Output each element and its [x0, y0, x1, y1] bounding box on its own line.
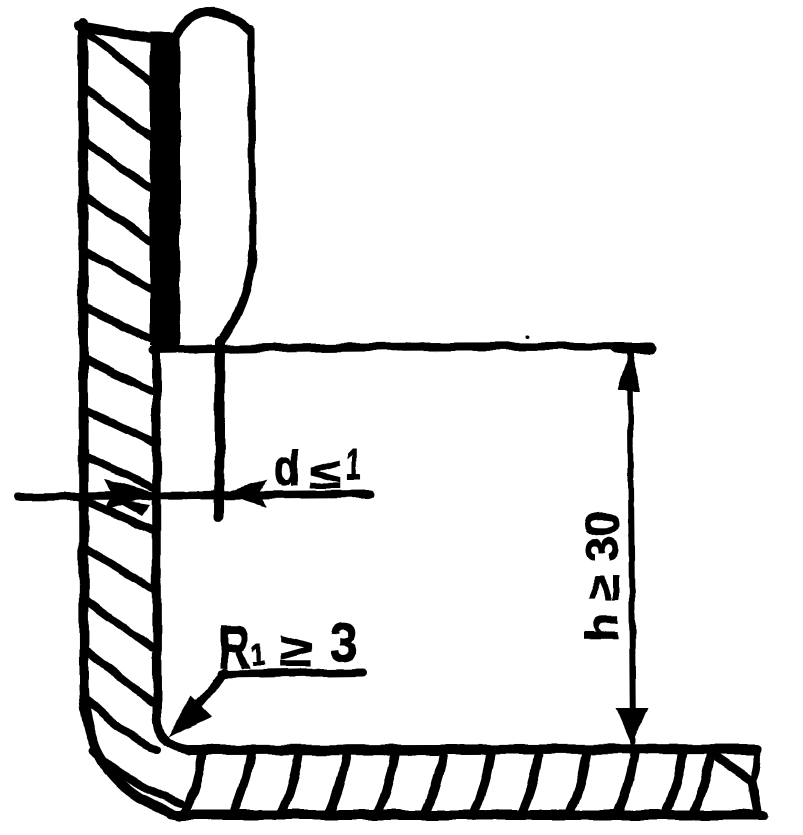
wall hatch 2	[85, 88, 152, 138]
d left arrow	[104, 479, 160, 516]
plate hatch 12	[694, 753, 711, 812]
h dimension line	[630, 352, 633, 742]
speck	[525, 334, 529, 338]
wall left edge	[83, 23, 84, 688]
h down arrow	[616, 708, 648, 745]
h reference top line	[153, 346, 651, 350]
svg-text:1: 1	[251, 639, 265, 672]
plate hatch 4	[330, 751, 347, 812]
tool taper edge	[222, 253, 253, 340]
d right arrow	[224, 479, 267, 507]
plate hatch 10	[618, 751, 635, 812]
tool right edge	[251, 29, 253, 253]
wall top edge	[79, 26, 150, 38]
plate bottom line	[172, 810, 763, 820]
svg-text:1: 1	[346, 440, 361, 489]
wall hatch 3	[86, 142, 153, 190]
plate hatch 6	[426, 751, 443, 812]
wall hatch 6	[85, 307, 152, 340]
wall hatch 9	[84, 456, 152, 487]
wall hatch 10	[88, 502, 152, 529]
R leader arrowhead	[168, 696, 212, 737]
wall hatch 11	[85, 548, 152, 588]
svg-text:d: d	[274, 440, 300, 496]
svg-text:≤: ≤	[309, 450, 341, 497]
tool top dome	[177, 12, 249, 34]
wall right edge	[156, 40, 157, 716]
plate top line	[190, 749, 757, 750]
wall hatch 8	[85, 410, 152, 442]
wall hatch 1	[86, 32, 152, 82]
plate right broken edge upper	[752, 750, 757, 781]
plate hatch 3	[282, 751, 299, 812]
plate hatch 2	[234, 751, 251, 812]
plate hatch 5	[378, 751, 395, 812]
wall hatch 5	[86, 252, 152, 290]
svg-text:3: 3	[330, 613, 357, 673]
wall outer corner curve	[84, 686, 179, 816]
svg-text:h ≥ 30: h ≥ 30	[576, 511, 628, 641]
h up arrow	[618, 349, 642, 391]
corner hatch 2	[88, 700, 158, 750]
wall inner fillet	[157, 714, 192, 750]
plate hatch 1	[186, 751, 203, 812]
plate hatch 7	[474, 751, 491, 812]
plate hatch 9	[570, 751, 587, 812]
wall hatch 7	[86, 360, 152, 392]
R leader underline	[222, 672, 362, 674]
wall hatch 12	[86, 600, 152, 648]
plate hatch 8	[522, 751, 539, 812]
wall hatch 4	[85, 197, 152, 242]
plate right broken edge lower	[752, 781, 758, 813]
corner hatch 3	[93, 751, 182, 803]
plate right break diagonal	[711, 753, 752, 781]
kerf line below tool tip	[219, 341, 220, 517]
d dimension line	[18, 494, 370, 497]
R leader diagonal	[178, 672, 226, 728]
plate hatch 11	[666, 751, 683, 812]
top line end blob	[616, 343, 650, 354]
gap band (dark slot between wall and tool)	[150, 32, 180, 346]
corner hatch 1	[86, 650, 152, 702]
